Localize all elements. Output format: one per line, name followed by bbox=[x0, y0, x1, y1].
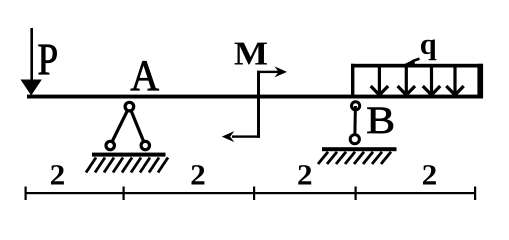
support A right roller circle bbox=[141, 141, 149, 149]
support A ground line bbox=[92, 153, 166, 157]
distributed load arrow 4 bbox=[446, 67, 463, 95]
distributed load q top edge bbox=[351, 64, 483, 68]
dimension tick 4 bbox=[355, 187, 357, 201]
support A left leg bbox=[110, 107, 129, 146]
dimension line bbox=[25, 192, 476, 194]
support A left roller circle bbox=[106, 141, 114, 149]
moment M top arm bbox=[259, 71, 280, 73]
support B bottom circle bbox=[350, 135, 359, 144]
force P arrow shaft bbox=[30, 28, 33, 81]
distributed load q right edge bbox=[477, 64, 483, 99]
dimension tick 2 bbox=[123, 187, 125, 201]
distributed load q left edge bbox=[351, 64, 354, 95]
support A right leg bbox=[129, 107, 145, 146]
moment M bottom arrowhead (left, barbed) bbox=[222, 131, 235, 142]
distributed load arrow 3 bbox=[423, 67, 440, 95]
moment M top arrowhead (right, barbed) bbox=[275, 66, 288, 77]
support B ground line bbox=[322, 147, 397, 151]
beam bbox=[27, 95, 483, 99]
dimension tick 1 bbox=[25, 187, 27, 201]
label M bbox=[234, 43, 267, 65]
support A top hinge circle bbox=[125, 102, 134, 111]
label A bbox=[131, 61, 159, 90]
dimension label 2 (segment 1) bbox=[51, 165, 64, 184]
force P arrowhead bbox=[21, 80, 42, 96]
label B bbox=[367, 108, 393, 134]
dimension label 2 (segment 4) bbox=[423, 165, 436, 184]
support B link bbox=[353, 106, 357, 139]
dimension tick 5 bbox=[474, 187, 476, 201]
support B top circle bbox=[352, 102, 360, 110]
q leader arrow shaft bbox=[412, 59, 420, 62]
dimension tick 3 bbox=[253, 187, 255, 201]
support A ground hatching bbox=[86, 158, 168, 173]
q leader arrowhead bbox=[403, 59, 416, 65]
label q bbox=[421, 40, 436, 61]
moment M bottom arm bbox=[232, 135, 260, 137]
dimension label 2 (segment 2) bbox=[191, 165, 204, 184]
support B ground hatching bbox=[318, 152, 391, 164]
label P bbox=[39, 45, 57, 74]
distributed load arrow 1 bbox=[371, 67, 388, 95]
moment M vertical line bbox=[257, 71, 260, 138]
dimension label 2 (segment 3) bbox=[298, 165, 311, 184]
distributed load arrow 2 bbox=[398, 67, 415, 95]
